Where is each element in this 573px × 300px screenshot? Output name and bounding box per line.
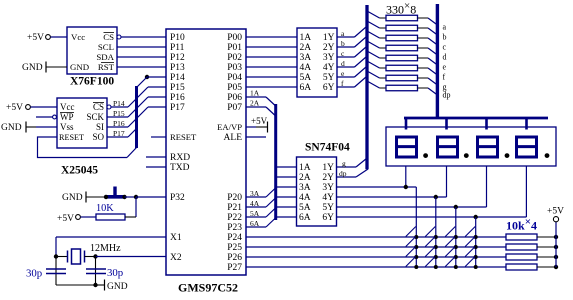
wire X25045 RESET loop to bus [38, 137, 128, 158]
wire digit2 select [337, 166, 447, 197]
resistor network RP2 10k [506, 244, 556, 250]
svg-text:Vcc: Vcc [71, 32, 85, 42]
wire MCU X2 [96, 256, 167, 258]
wire +5VO to X76F100 Vcc [50, 36, 67, 38]
resistor network R5 330 ohm [367, 51, 437, 65]
resistor network R8 330 ohm [367, 81, 437, 95]
svg-text:CS: CS [103, 32, 114, 42]
wire X76F100 RST to MCU P13 [117, 66, 166, 68]
display DS1 4-digit 7-segment [386, 127, 556, 166]
wire X76F100 SDA to MCU P12 [117, 56, 166, 58]
svg-text:RST: RST [98, 62, 115, 72]
svg-text:1A: 1A [250, 89, 260, 98]
svg-text:b: b [341, 39, 345, 48]
svg-text:P03: P03 [227, 63, 242, 73]
svg-text:330×8: 330×8 [386, 0, 416, 17]
key switch S31 [445, 227, 458, 240]
svg-text:P15: P15 [113, 109, 125, 118]
key switch S33 [445, 247, 458, 260]
svg-text:RESET: RESET [170, 132, 197, 142]
wire MCU P15 to bus [148, 86, 166, 88]
microcontroller U3 GMS97C52 [166, 29, 246, 275]
resistor network R7 330 ohm [367, 71, 437, 85]
wire stub MCU RXD [146, 156, 166, 158]
svg-text:P05: P05 [227, 83, 242, 93]
capacitor C2 30p [86, 269, 106, 274]
wire MCU P22 net 5A [246, 209, 266, 218]
bus entry diagonal P15 from X25045 [128, 109, 137, 118]
svg-text:5A: 5A [300, 73, 312, 83]
svg-text:GND: GND [62, 193, 83, 203]
wire right cap leg [95, 257, 97, 286]
svg-text:3Y: 3Y [322, 183, 334, 193]
wire digit1 select [337, 166, 417, 187]
hex inverter U4 SN74F04 block1 [297, 28, 337, 97]
wire +5VO to X25045 Vcc [30, 106, 57, 108]
wire stub MCU ALE [246, 136, 266, 138]
wire X76F100 CS to MCU P10 [121, 36, 166, 38]
key switch S44 [465, 257, 478, 270]
svg-text:d: d [341, 59, 345, 68]
bus entry diagonal net 1A [266, 97, 276, 106]
svg-text:P00: P00 [227, 33, 242, 43]
svg-text:10k×4: 10k×4 [506, 216, 537, 233]
bubble on X25045 CS pin [107, 105, 111, 109]
wire MCU P07 net 2A [246, 99, 266, 108]
EEPROM U1 X76F100 [67, 27, 117, 74]
resistor network RP3 10k [506, 254, 556, 260]
wire keypad column 4 [475, 217, 477, 267]
svg-text:1Y: 1Y [323, 33, 335, 43]
svg-text:2A: 2A [299, 173, 311, 183]
svg-text:e: e [443, 63, 447, 72]
svg-text:P32: P32 [170, 193, 185, 203]
node keypad col4 junction dot [474, 215, 478, 219]
svg-text:P27: P27 [227, 263, 242, 273]
wire digit3 select [337, 166, 487, 207]
svg-text:P22: P22 [227, 213, 242, 223]
bus entry diagonal net f [355, 77, 367, 87]
key switch S41 [465, 227, 478, 240]
svg-text:GND: GND [107, 282, 128, 292]
svg-text:P12: P12 [170, 53, 185, 63]
svg-text:Vss: Vss [60, 122, 74, 132]
svg-text:2A: 2A [300, 43, 312, 53]
resistor network RP4 10k [506, 264, 556, 270]
display decimal point 1 [423, 153, 428, 158]
svg-text:X1: X1 [170, 233, 182, 243]
svg-text:SI: SI [96, 122, 104, 132]
svg-text:P02: P02 [227, 53, 242, 63]
node P14 junction dot [145, 75, 149, 79]
bus bar segment-left [365, 5, 368, 169]
svg-text:P24: P24 [227, 233, 242, 243]
wire left cap leg [55, 257, 57, 286]
wire data bus to inverter2 3A input [277, 186, 297, 188]
svg-text:GND: GND [22, 63, 43, 73]
bubble on X25045 WP pin [53, 115, 57, 119]
svg-text:a: a [443, 23, 447, 32]
svg-text:4Y: 4Y [323, 63, 335, 73]
bus entry diagonal RESET loop [127, 148, 137, 158]
svg-text:1A: 1A [299, 163, 311, 173]
display digit 1 [395, 137, 418, 157]
svg-text:WP: WP [60, 112, 74, 122]
wire digit4 select [337, 166, 527, 217]
EEPROM U2 X25045 [57, 98, 107, 148]
bus entry diagonal net 4A [266, 198, 276, 207]
power +5VO terminal for X25045 [6, 103, 30, 113]
svg-text:30p: 30p [26, 268, 42, 280]
bus entry diagonal net 6A [266, 218, 276, 227]
svg-text:6A: 6A [300, 83, 312, 93]
bus entry diagonal net 5A [266, 208, 276, 217]
resistor network R3 330 ohm [367, 31, 437, 45]
crystal Y1 12MHz [68, 249, 85, 264]
svg-text:P16: P16 [113, 119, 125, 128]
svg-text:3A: 3A [299, 183, 311, 193]
svg-text:b: b [443, 33, 447, 42]
wire button to node [125, 196, 137, 198]
wire MCU P20 net 3A [246, 189, 266, 198]
key switch S13 [406, 247, 419, 260]
key switch S24 [425, 257, 438, 270]
svg-text:4A: 4A [250, 199, 260, 208]
bus entry diagonal net 3A [266, 188, 276, 197]
wire GND to X76F100 GND pin [46, 66, 67, 68]
svg-text:3Y: 3Y [323, 53, 335, 63]
wire display common top bus [404, 117, 548, 120]
svg-text:3A: 3A [300, 53, 312, 63]
wire resistor to node [125, 216, 136, 218]
display decimal point 2 [464, 153, 469, 158]
node pullup 4 junction dot [554, 265, 558, 269]
wire X76F100 SCL to MCU P11 [117, 46, 166, 48]
key switch S11 [406, 227, 419, 240]
svg-text:GMS97C52: GMS97C52 [178, 281, 238, 295]
node P32 junction dot [134, 195, 138, 199]
svg-text:P16: P16 [170, 93, 185, 103]
node crystal right junction dot [93, 254, 97, 258]
svg-text:3A: 3A [250, 189, 260, 198]
bus entry diagonal net a [355, 27, 367, 37]
svg-text:SO: SO [92, 132, 104, 142]
svg-text:+5V: +5V [251, 116, 268, 126]
svg-text:SDA: SDA [96, 52, 114, 62]
svg-text:5A: 5A [250, 209, 260, 218]
bus entry diagonal net b [355, 37, 367, 47]
svg-text:Vcc: Vcc [60, 102, 75, 112]
svg-text:X2: X2 [170, 253, 182, 263]
wire data bus to inverter2 6A input [277, 216, 297, 218]
resistor network R4 330 ohm [367, 41, 437, 55]
svg-text:P15: P15 [170, 83, 185, 93]
svg-text:4A: 4A [299, 193, 311, 203]
wire +5VO to resistor [80, 216, 96, 218]
key switch S32 [445, 237, 458, 250]
svg-text:EA/VP: EA/VP [217, 122, 242, 132]
bus entry diagonal P14 from MCU [137, 77, 147, 87]
key switch S43 [465, 247, 478, 260]
bus entry diagonal P17 from MCU [138, 107, 149, 118]
svg-text:P04: P04 [227, 73, 242, 83]
display digit top stubs [406, 118, 527, 130]
wire MCU P16 to bus [148, 96, 166, 98]
wire node to MCU P32 [136, 196, 166, 198]
wire MCU P14 to bus [147, 76, 166, 78]
bus entry diagonal net d [355, 57, 367, 67]
power +5VO terminal for R1 [57, 214, 80, 224]
svg-text:6A: 6A [250, 219, 260, 228]
bus bar MCU data to inverter2 [274, 104, 277, 220]
wire data bus to inverter2 5A input [277, 206, 297, 208]
pushbutton S1 [104, 187, 127, 200]
svg-text:f: f [443, 73, 446, 82]
svg-text:P06: P06 [227, 93, 242, 103]
bus bar segment-right [436, 4, 439, 118]
wire inverter 1Y output net a [337, 29, 355, 38]
svg-text:g: g [342, 159, 346, 168]
wire +5V pullup rail [555, 222, 557, 267]
wire keypad column 3 [455, 207, 457, 267]
wire MCU P06 net 1A [246, 89, 266, 98]
svg-text:1Y: 1Y [322, 163, 334, 173]
svg-text:+5V: +5V [547, 207, 564, 217]
svg-text:dp: dp [443, 91, 451, 100]
wire stub to X25045 WP pin [36, 116, 53, 118]
svg-text:SCK: SCK [86, 112, 104, 122]
wire X25045 SO with net label P17 [107, 129, 128, 138]
wire bottom of crystal circuit [56, 284, 96, 286]
wire MCU P25 keypad row 2 [246, 246, 506, 248]
ground GND terminal for button [62, 192, 86, 204]
wire crystal left [56, 256, 68, 258]
wire stub MCU RESET [151, 136, 166, 138]
svg-text:P11: P11 [170, 43, 185, 53]
svg-text:2A: 2A [250, 99, 260, 108]
key switch S14 [406, 257, 419, 270]
resistor network R1 330 ohm [367, 11, 437, 25]
wire data bus to inverter2 1A input [277, 166, 297, 168]
node bottom junction dot [93, 283, 97, 287]
key switch S42 [465, 237, 478, 250]
resistor R1 10K [96, 214, 125, 220]
wire GND to X25045 Vss [26, 126, 36, 128]
svg-text:+5V: +5V [57, 214, 74, 224]
wire inverter 3Y output net c [337, 49, 355, 58]
svg-text:RXD: RXD [170, 153, 190, 163]
svg-text:GND: GND [70, 62, 89, 72]
bus entry diagonal P15 from MCU [138, 87, 149, 98]
capacitor C1 30p [46, 269, 66, 274]
node crystal left junction dot [54, 254, 58, 258]
svg-text:RESET: RESET [59, 133, 84, 142]
svg-text:d: d [443, 53, 447, 62]
svg-text:4A: 4A [300, 63, 312, 73]
wire MCU P17 to bus [148, 106, 166, 108]
node pullup 1 junction dot [554, 235, 558, 239]
wire GND to button [86, 196, 107, 198]
svg-text:+5V: +5V [27, 33, 44, 43]
svg-text:P21: P21 [227, 203, 242, 213]
wire inverter 2Y output net b [337, 39, 355, 48]
ground GND terminal for X25045 [1, 122, 26, 134]
svg-text:6Y: 6Y [322, 213, 334, 223]
svg-text:GND: GND [1, 123, 22, 133]
wire node down to resistor [135, 197, 137, 217]
svg-text:SCL: SCL [98, 42, 114, 52]
wire MCU X1 [56, 236, 166, 238]
svg-text:P01: P01 [227, 43, 242, 53]
svg-text:P10: P10 [170, 33, 185, 43]
svg-text:P07: P07 [227, 103, 242, 113]
bus entry diagonal P16 from X25045 [128, 119, 137, 128]
svg-text:10K: 10K [96, 203, 114, 214]
svg-text:5A: 5A [299, 203, 311, 213]
wire MCU P23 net 6A [246, 219, 266, 228]
wire crystal right [85, 256, 96, 258]
wire inverter 4Y output net d [337, 59, 355, 68]
key switch S23 [425, 247, 438, 260]
hex inverter U5 SN74F04 block2 [297, 157, 337, 226]
wire MCU P00 to inverter 1A [246, 36, 297, 38]
svg-text:P23: P23 [227, 223, 242, 233]
node digit1 select junction dot [404, 185, 408, 189]
bus entry diagonal P14 from X25045 [128, 99, 137, 108]
svg-text:+5V: +5V [6, 103, 23, 113]
display digit 2 [436, 137, 459, 157]
svg-text:P26: P26 [227, 253, 242, 263]
svg-text:dp: dp [339, 169, 347, 178]
svg-text:30p: 30p [107, 267, 123, 279]
power +5V terminal for pullups [547, 207, 564, 222]
key switch S22 [425, 237, 438, 250]
bus bar between X25045 and MCU [135, 86, 138, 148]
display digit 4 [515, 137, 538, 157]
display decimal point 3 [505, 153, 510, 158]
node pullup 3 junction dot [554, 255, 558, 259]
svg-text:5Y: 5Y [323, 73, 335, 83]
wire X1 down leg [55, 237, 57, 256]
key switch S34 [445, 257, 458, 270]
svg-text:CS: CS [93, 102, 104, 112]
wire MCU P02 to inverter 3A [246, 56, 297, 58]
display decimal point 4 [545, 153, 550, 158]
svg-text:P20: P20 [227, 193, 242, 203]
bus entry diagonal P16 from MCU [138, 97, 149, 108]
wire stub MCU TXD [146, 166, 166, 168]
svg-text:6A: 6A [299, 213, 311, 223]
ground GND terminal for crystal caps [105, 280, 128, 293]
wire X25045 SCK with net label P15 [107, 109, 128, 118]
power +5V tick for EA/VP [251, 116, 268, 133]
node keypad col2 junction dot [434, 195, 438, 199]
svg-text:1A: 1A [300, 33, 312, 43]
svg-text:2Y: 2Y [322, 173, 334, 183]
wire inverter2 2Y output net dp [337, 169, 357, 178]
key switch S21 [425, 227, 438, 240]
svg-text:12MHz: 12MHz [90, 243, 121, 254]
svg-text:P13: P13 [170, 63, 185, 73]
bus entry diagonal P17 from X25045 [128, 129, 137, 138]
bus entry diagonal net e [355, 67, 367, 77]
svg-text:SN74F04: SN74F04 [305, 142, 350, 154]
wire to GND bar [96, 284, 105, 286]
wire MCU P05 to inverter 6A [246, 86, 297, 88]
svg-text:P17: P17 [113, 129, 125, 138]
wire inverter 5Y output net e [337, 69, 355, 78]
wire inverter 6Y output net f [337, 79, 355, 88]
node keypad col3 junction dot [454, 205, 458, 209]
wire MCU P04 to inverter 5A [246, 76, 297, 78]
svg-text:X25045: X25045 [61, 165, 98, 177]
resistor network R6 330 ohm [367, 61, 437, 75]
svg-text:P17: P17 [170, 103, 185, 113]
wire MCU P01 to inverter 2A [246, 46, 297, 48]
wire data bus to inverter2 4A input [277, 196, 297, 198]
display digit 3 [476, 137, 499, 157]
wire MCU P27 keypad row 4 [246, 266, 506, 268]
bus entry diagonal net 2A [266, 107, 276, 116]
wire keypad column 2 [435, 197, 437, 267]
ground GND terminal for X76F100 [22, 62, 46, 74]
power +5VO terminal for X76F100 [27, 33, 50, 43]
svg-text:5Y: 5Y [322, 203, 334, 213]
svg-text:c: c [443, 43, 447, 52]
bus entry diagonal net g [356, 159, 367, 168]
svg-text:6Y: 6Y [323, 83, 335, 93]
key switch S12 [406, 237, 419, 250]
resistor network R2 330 ohm [367, 21, 437, 35]
svg-text:P25: P25 [227, 243, 242, 253]
svg-text:ALE: ALE [224, 133, 243, 143]
wire keypad column 1 [415, 187, 417, 267]
resistor network RP1 10k [506, 234, 556, 240]
wire inverter2 1Y output net g [337, 159, 357, 168]
wire X25045 CS with net label P14 [111, 99, 128, 108]
wire data bus to inverter2 2A input [277, 176, 297, 178]
wire MCU P03 to inverter 4A [246, 66, 297, 68]
svg-text:X76F100: X76F100 [70, 76, 114, 88]
wire MCU P21 net 4A [246, 199, 266, 208]
node pullup 2 junction dot [554, 245, 558, 249]
wire MCU EA/VP [246, 126, 256, 128]
wire X25045 SI with net label P16 [107, 119, 128, 128]
bus entry diagonal net c [355, 47, 367, 57]
svg-text:TXD: TXD [170, 163, 190, 173]
svg-text:4Y: 4Y [322, 193, 334, 203]
bus entry diagonal net dp [356, 169, 368, 177]
wire MCU P26 keypad row 3 [246, 256, 506, 258]
svg-text:P14: P14 [113, 99, 125, 108]
svg-text:P14: P14 [170, 73, 185, 83]
wire MCU P24 keypad row 1 [246, 236, 506, 238]
svg-text:2Y: 2Y [323, 43, 335, 53]
bubble on X76F100 CS pin [117, 35, 121, 39]
